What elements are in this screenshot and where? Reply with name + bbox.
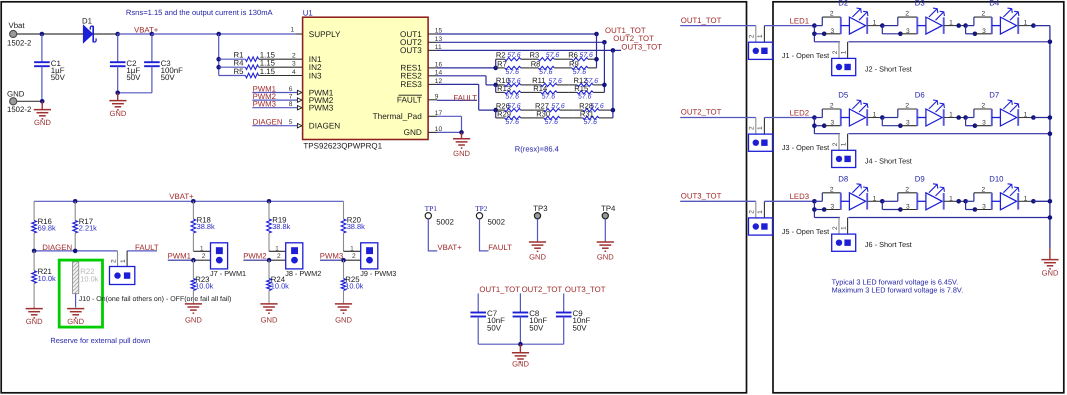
- svg-text:R31: R31: [580, 110, 594, 119]
- wire D2 anode lead: [841, 25, 850, 27]
- svg-text:OUT3_TOT: OUT3_TOT: [681, 192, 722, 201]
- resistors R26 R27 R28 / R29 R30 R31 (57.6 matrix group3): [496, 101, 613, 126]
- wire LED1: [764, 25, 814, 27]
- svg-text:D2: D2: [838, 0, 848, 8]
- svg-text:D4: D4: [989, 0, 1000, 8]
- svg-text:R8: R8: [531, 60, 541, 69]
- wire pin3 lead: [814, 125, 824, 127]
- svg-text:5002: 5002: [436, 218, 454, 227]
- wire Thermal_Pad drop: [461, 116, 463, 132]
- svg-text:J1 - Open Test: J1 - Open Test: [782, 51, 829, 60]
- capacitor C8: [513, 293, 548, 344]
- svg-text:1: 1: [840, 226, 847, 230]
- wire D4 anode: [966, 25, 974, 27]
- wire C2/C3 bottoms: [118, 92, 152, 94]
- wire D2 anode: [814, 25, 822, 27]
- junction pin3 tie: [812, 32, 817, 37]
- jumper J5: [749, 201, 773, 235]
- wire row to gnd bus: [1033, 117, 1050, 119]
- junction gnd bus: [1048, 115, 1053, 120]
- wire LED2: [764, 117, 814, 119]
- wire D2 pin2: [822, 16, 841, 18]
- svg-text:D8: D8: [838, 174, 848, 183]
- svg-text:2: 2: [830, 11, 834, 18]
- capacitor C9: [556, 293, 591, 344]
- LED D9: [926, 184, 945, 210]
- junction gnd bus: [1048, 131, 1053, 136]
- wire LED3: [764, 200, 814, 202]
- wire D9 anode: [882, 200, 898, 202]
- svg-text:1: 1: [873, 20, 877, 27]
- pin 13 stub: [428, 41, 437, 43]
- wire GND terminal to C1 bottom: [17, 100, 42, 102]
- wire TP3 stub: [537, 219, 539, 242]
- LED D6: [926, 100, 945, 126]
- wire D7 anode lead: [992, 117, 1001, 119]
- svg-text:57.6: 57.6: [545, 119, 559, 126]
- wire DIAGEN net: [34, 250, 117, 252]
- svg-text:J10 - On(one fail others on) -: J10 - On(one fail others on) - OFF(one f…: [79, 295, 232, 303]
- jumper J6: [832, 218, 856, 252]
- wire D3 cathode: [944, 25, 966, 27]
- resistor R17: [73, 201, 97, 251]
- svg-text:FAULT: FAULT: [488, 243, 512, 252]
- svg-text:57.6: 57.6: [551, 103, 565, 110]
- junction D3 anode: [880, 23, 885, 28]
- pin 1 stub SUPPLY: [295, 33, 302, 35]
- wire OUT1 net: [437, 33, 597, 35]
- wire D8 pin3: [824, 209, 841, 211]
- svg-text:2: 2: [110, 259, 117, 263]
- wire OUT2 vertical tie: [603, 42, 605, 92]
- junction LED2 anode: [812, 115, 817, 120]
- junction D10 pin3: [973, 207, 978, 212]
- svg-text:GND: GND: [404, 128, 422, 137]
- wire anode drop to rail: [813, 118, 815, 134]
- wire D7 anode drop: [965, 118, 967, 126]
- wire TP1 stub: [428, 219, 437, 251]
- svg-text:IN3: IN3: [309, 71, 322, 80]
- wire D3 pin3 lead: [882, 33, 900, 35]
- wire OUT3 net: [437, 49, 621, 51]
- wire VBAT+ rail: [34, 200, 343, 202]
- svg-text:1: 1: [757, 34, 764, 38]
- wire R19 to J8 pin1: [269, 250, 286, 252]
- resistors R10 R11 R12 / R13 R14 R15 (57.6 matrix group2): [496, 76, 605, 101]
- junction R1 row: [216, 57, 221, 62]
- svg-text:R30: R30: [536, 110, 550, 119]
- pin 6 arrow: [297, 90, 302, 94]
- wire OUT1 vertical tie: [596, 34, 598, 68]
- junction D7 anode: [963, 115, 968, 120]
- svg-text:1: 1: [291, 26, 295, 33]
- svg-text:1: 1: [873, 195, 877, 202]
- junction C3 top: [150, 32, 155, 37]
- svg-text:GND: GND: [261, 316, 278, 325]
- wire R20 to J9 pin1: [344, 250, 361, 252]
- jumper J9 pin labels: [350, 246, 356, 260]
- junction D9 anode: [880, 199, 885, 204]
- svg-text:J7 - PWM1: J7 - PWM1: [210, 269, 246, 278]
- junction g2 row1 right: [602, 83, 607, 88]
- ground GND (R21): [26, 309, 44, 327]
- wire PWM2 label underline: [243, 259, 269, 261]
- wire D10 pin3 lead: [966, 209, 975, 211]
- wire R1 to pin 2: [259, 58, 303, 60]
- svg-text:2: 2: [982, 186, 986, 193]
- resistor R21: [32, 251, 56, 308]
- svg-text:3: 3: [982, 204, 986, 211]
- svg-text:1: 1: [1024, 195, 1028, 202]
- junction OUT1_TOT: [594, 32, 599, 37]
- wire D5 anode: [814, 117, 822, 119]
- wire anode drop to rail: [813, 201, 815, 217]
- svg-text:2: 2: [749, 34, 756, 38]
- junction C1 top: [40, 32, 45, 37]
- ground GND (R22): [67, 309, 85, 327]
- svg-text:D3: D3: [915, 0, 925, 8]
- right schematic sheet border: [773, 2, 1064, 393]
- junction DIAGEN R17: [73, 249, 78, 254]
- wire PWM1 pin 6: [252, 92, 297, 94]
- svg-text:57.6: 57.6: [584, 119, 598, 126]
- LED D5: [849, 100, 868, 126]
- svg-text:2: 2: [832, 142, 839, 146]
- wire D5 cathode: [867, 117, 882, 119]
- svg-text:R2: R2: [496, 51, 506, 60]
- jumper J7: [211, 243, 228, 269]
- svg-text:GND: GND: [512, 360, 529, 369]
- wire LED gnd bus: [1049, 26, 1051, 249]
- wire D3 anode lead: [917, 25, 926, 27]
- LED D4: [1000, 8, 1019, 34]
- svg-text:3: 3: [906, 204, 910, 211]
- U1 FAULT overline: [399, 94, 423, 96]
- junction row cathode: [1031, 23, 1036, 28]
- op-amp/driver U1 body: [303, 17, 429, 139]
- wire D6 pin3: [900, 125, 917, 127]
- wire rows left tie g2: [495, 85, 497, 93]
- junction PWM1: [191, 258, 196, 263]
- ground GND (U1): [453, 139, 471, 158]
- wire D3 pin2: [898, 16, 918, 18]
- D9 anode bar: [916, 193, 918, 210]
- capacitor C3: [144, 34, 183, 93]
- svg-text:57.6: 57.6: [548, 78, 562, 85]
- left schematic sheet border: [1, 2, 746, 393]
- wire PWM3 label underline: [320, 259, 344, 261]
- wire D9 pin3: [900, 209, 917, 211]
- svg-text:10.0k: 10.0k: [195, 282, 213, 291]
- ground GND (C2/C3): [109, 101, 127, 119]
- wire R22 to ground: [75, 294, 77, 308]
- svg-text:3: 3: [831, 28, 835, 35]
- svg-text:1: 1: [840, 142, 847, 146]
- wire D3 pin3: [900, 33, 917, 35]
- wire D8 pin2: [822, 192, 841, 194]
- wire RES1: [437, 67, 496, 69]
- junction thermal/gnd: [459, 130, 464, 135]
- svg-text:OUT3: OUT3: [400, 46, 422, 55]
- svg-text:2.21k: 2.21k: [79, 224, 97, 233]
- wire D7 pin3 lead: [966, 125, 975, 127]
- junction R4 row: [216, 65, 221, 70]
- wire D5 pin3: [824, 125, 841, 127]
- junction VBAT+ rail: [191, 199, 196, 204]
- svg-text:57.6: 57.6: [506, 69, 520, 76]
- svg-text:57.6: 57.6: [573, 69, 587, 76]
- svg-text:10.0k: 10.0k: [271, 282, 289, 291]
- junction RES3 rows: [493, 108, 498, 113]
- ground stub (C1): [41, 101, 43, 109]
- resistor R20: [341, 201, 365, 251]
- wire short-test rail left: [814, 41, 840, 43]
- wire OUT3 vertical tie: [612, 50, 614, 118]
- wire rows left tie g1: [495, 59, 497, 68]
- junction gnd bus: [1048, 199, 1053, 204]
- svg-text:J9 - PWM3: J9 - PWM3: [360, 269, 396, 278]
- svg-text:2: 2: [352, 253, 356, 260]
- junction D6 pin3: [898, 123, 903, 128]
- pin 12 stub: [428, 83, 437, 85]
- svg-text:1.15: 1.15: [260, 67, 276, 76]
- svg-text:2: 2: [982, 103, 986, 110]
- svg-text:1502-2: 1502-2: [7, 38, 31, 47]
- svg-text:OUT2_TOT: OUT2_TOT: [681, 108, 722, 117]
- resistor R23: [191, 260, 213, 303]
- wire D9 pin2 rise: [897, 193, 899, 202]
- svg-text:1: 1: [840, 50, 847, 54]
- svg-text:R15: R15: [574, 84, 588, 93]
- svg-text:2: 2: [905, 11, 909, 18]
- svg-text:OUT2_TOT: OUT2_TOT: [522, 285, 563, 294]
- wire D3 anode: [882, 25, 898, 27]
- wire OUT2 net: [437, 41, 604, 43]
- svg-text:PWM3: PWM3: [320, 251, 343, 260]
- svg-text:R13: R13: [497, 84, 511, 93]
- svg-text:PWM2: PWM2: [243, 251, 266, 260]
- diode D1: [83, 25, 96, 42]
- wire GND pin: [437, 131, 462, 133]
- svg-text:38.8k: 38.8k: [347, 222, 365, 231]
- jumper J7 pin labels: [200, 246, 206, 260]
- wire D6 cathode: [944, 117, 966, 119]
- svg-text:50V: 50V: [529, 323, 544, 332]
- junction third cell: [956, 199, 961, 204]
- svg-text:1: 1: [949, 20, 953, 27]
- wire D3 pin2 rise: [897, 17, 899, 26]
- svg-text:R(resx)=86.4: R(resx)=86.4: [515, 145, 559, 154]
- svg-text:2: 2: [832, 226, 839, 230]
- junction PWM2: [267, 258, 272, 263]
- svg-text:3: 3: [982, 28, 986, 35]
- resistor R4: [234, 59, 276, 70]
- wire D9 anode lead: [917, 200, 926, 202]
- ground GND (R24): [260, 304, 278, 325]
- wire D7 pin2 rise: [973, 109, 975, 118]
- wire row to gnd bus: [1033, 200, 1050, 202]
- wire D8 pin2 rise: [821, 193, 823, 202]
- svg-text:FAULT: FAULT: [453, 94, 477, 103]
- junction pin3: [822, 32, 827, 37]
- pin 10 stub: [428, 131, 437, 133]
- svg-text:57.6: 57.6: [506, 119, 520, 126]
- junction D9 pin3: [898, 207, 903, 212]
- svg-text:J6 - Short Test: J6 - Short Test: [865, 240, 912, 249]
- wire D1 cathode to C2 node: [94, 33, 118, 35]
- junction D10 anode: [963, 199, 968, 204]
- svg-text:1: 1: [200, 246, 204, 253]
- resistor R5: [234, 67, 276, 78]
- wire D10 anode: [966, 200, 974, 202]
- wire OUT3_TOT to J5: [680, 200, 756, 202]
- svg-text:Rsns=1.15 and the output curre: Rsns=1.15 and the output current is 130m…: [126, 8, 274, 17]
- ground stub (R21): [33, 307, 35, 308]
- wire short-test rail left: [814, 133, 840, 135]
- D2 anode bar: [840, 17, 842, 34]
- svg-text:GND: GND: [185, 316, 202, 325]
- wire D8 anode lead: [841, 200, 850, 202]
- junction g3 row1 right: [611, 108, 616, 113]
- wire TP4 stub: [604, 219, 606, 242]
- svg-text:D7: D7: [989, 91, 999, 100]
- svg-text:GND: GND: [7, 89, 25, 98]
- wire D7 pin3: [975, 125, 992, 127]
- wire D6 pin3 lead: [882, 125, 900, 127]
- svg-text:OUT3_TOT: OUT3_TOT: [565, 285, 606, 294]
- junction gnd bus: [1048, 215, 1053, 220]
- ground GND (input): [34, 110, 52, 128]
- svg-text:OUT3_TOT: OUT3_TOT: [621, 42, 662, 51]
- wire Thermal_Pad: [437, 115, 462, 117]
- wire short-test rail right: [848, 41, 1050, 43]
- junction row cathode: [1031, 115, 1036, 120]
- wire D7 pin2: [974, 108, 992, 110]
- junction g1 row1 right: [594, 57, 599, 62]
- svg-text:2: 2: [830, 186, 834, 193]
- wire FAULT net: [437, 99, 477, 101]
- jumper J8: [286, 243, 303, 269]
- svg-text:50V: 50V: [573, 323, 588, 332]
- svg-text:R5: R5: [234, 67, 245, 76]
- junction VBAT+ rail: [73, 199, 78, 204]
- junction pin3: [822, 123, 827, 128]
- pin 5 arrow: [297, 124, 302, 128]
- capacitor C7: [470, 293, 505, 344]
- wire D4 cathode: [1018, 25, 1033, 27]
- svg-text:RES3: RES3: [400, 80, 422, 89]
- jumper J2: [832, 42, 856, 76]
- wire D2 cathode: [867, 25, 882, 27]
- svg-text:1: 1: [873, 112, 877, 119]
- svg-text:3: 3: [906, 120, 910, 127]
- ground stub (caps): [519, 344, 521, 352]
- junction D4 anode: [963, 23, 968, 28]
- svg-text:9: 9: [435, 93, 439, 100]
- resistor R16: [32, 201, 56, 251]
- svg-text:LED2: LED2: [790, 108, 810, 117]
- svg-text:LED3: LED3: [790, 192, 810, 201]
- svg-text:2: 2: [832, 50, 839, 54]
- ground GND (caps): [512, 353, 530, 369]
- jumper J9: [361, 243, 378, 269]
- svg-text:1: 1: [949, 195, 953, 202]
- resistor R24: [267, 260, 289, 303]
- pin 14 stub: [428, 75, 437, 77]
- wire to R1: [219, 58, 246, 60]
- wire RES3 to g3 row1: [479, 109, 496, 111]
- svg-text:OUT1_TOT: OUT1_TOT: [681, 16, 722, 25]
- D8 anode bar: [840, 193, 842, 210]
- svg-text:57.6: 57.6: [506, 94, 520, 101]
- svg-text:TP4: TP4: [601, 204, 616, 213]
- svg-text:DIAGEN: DIAGEN: [309, 122, 340, 131]
- junction pin3 tie: [812, 123, 817, 128]
- wire RES3 drop: [478, 84, 480, 110]
- junction pin3: [822, 207, 827, 212]
- svg-text:J2 - Short Test: J2 - Short Test: [865, 64, 912, 73]
- resistor R22 (not fitted): [73, 262, 99, 294]
- svg-text:D10: D10: [989, 174, 1004, 183]
- svg-text:50V: 50V: [487, 323, 502, 332]
- junction C2 bottom: [115, 91, 120, 96]
- wire RES2: [437, 75, 486, 77]
- D10 anode bar: [991, 193, 993, 210]
- svg-text:3: 3: [831, 120, 835, 127]
- terminal Vbat: [10, 30, 17, 37]
- LED D10: [1000, 184, 1019, 210]
- pin 17 stub: [428, 115, 437, 117]
- svg-text:1: 1: [120, 259, 127, 263]
- wire PWM1 label underline: [168, 259, 194, 261]
- wire PWM3 to J9 pin2: [344, 259, 361, 261]
- jumper J3: [749, 118, 773, 152]
- wire D10 cathode: [1018, 200, 1033, 202]
- wire D9 pin3 lead: [882, 209, 900, 211]
- ground stub (C2): [117, 93, 119, 101]
- svg-text:PWM3: PWM3: [309, 104, 334, 113]
- svg-text:DIAGEN: DIAGEN: [42, 243, 72, 252]
- D7 anode bar: [991, 109, 993, 126]
- svg-text:50V: 50V: [126, 73, 141, 82]
- junction PWM3: [341, 258, 346, 263]
- wire D5 anode lead: [841, 117, 850, 119]
- resistors R2 R3 R6 / R7 R8 R9 (57.6 matrix group1): [496, 51, 597, 77]
- svg-text:PWM1: PWM1: [168, 251, 191, 260]
- svg-text:38.8k: 38.8k: [197, 222, 215, 231]
- wire D2 pin3: [824, 33, 841, 35]
- svg-text:D5: D5: [838, 91, 849, 100]
- wire TP2 stub: [480, 219, 489, 251]
- wire cap ground rail: [478, 343, 564, 345]
- junction D3 pin3: [898, 32, 903, 37]
- wire short-test rail right: [848, 133, 1050, 135]
- junction LED3 anode: [812, 199, 817, 204]
- svg-text:1: 1: [1024, 20, 1028, 27]
- wire D2 pin2 rise: [821, 17, 823, 26]
- wire R18 to J7 pin1: [193, 250, 210, 252]
- junction cap gnd: [518, 342, 523, 347]
- wire FAULT underline (J10): [127, 250, 157, 252]
- wire D10 pin2 rise: [973, 193, 975, 202]
- junction pin3 tie: [812, 207, 817, 212]
- LED D7: [1000, 100, 1019, 126]
- capacitor C1: [34, 34, 65, 101]
- wire D6 anode drop: [881, 118, 883, 126]
- svg-text:1: 1: [1024, 112, 1028, 119]
- resistor R1: [234, 51, 276, 62]
- pin 11 stub: [428, 49, 437, 51]
